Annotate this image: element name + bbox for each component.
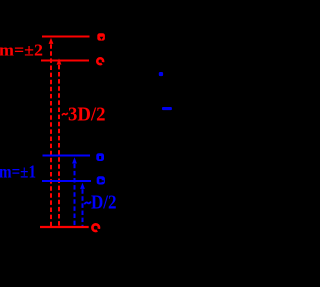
state letter o on upper m=+-1 level bbox=[96, 153, 104, 161]
label ~3D/2 tilde bbox=[62, 113, 68, 116]
red dashed transition arrow to upper m=+-2 level bbox=[49, 38, 54, 226]
level m=+-2 lower (red) bbox=[41, 60, 89, 62]
svg-text:m=±1: m=±1 bbox=[0, 162, 36, 182]
blue dashed transition arrow to upper m=+-1 level bbox=[72, 157, 77, 226]
ground level (red) bbox=[40, 226, 89, 228]
svg-text:D/2: D/2 bbox=[91, 192, 117, 214]
label ~D/2 tilde bbox=[84, 202, 91, 205]
state letter glyph on upper m=+-2 level bbox=[97, 33, 105, 40]
blue dash (cropped text fragment, right edge) bbox=[162, 107, 172, 110]
state letter e on lower m=+-2 level bbox=[97, 58, 105, 66]
state letter e on ground level bbox=[92, 224, 101, 233]
level m=+-2 upper (red) bbox=[42, 36, 90, 38]
red dashed transition arrow to lower m=+-2 level bbox=[57, 58, 62, 226]
blue dot (cropped text fragment, right edge) bbox=[159, 72, 163, 76]
state letter o on lower m=+-1 level bbox=[97, 176, 105, 184]
level m=+-1 upper (blue) bbox=[43, 155, 91, 157]
svg-text:3D/2: 3D/2 bbox=[68, 103, 106, 125]
blue dashed transition arrow to lower m=+-1 level bbox=[80, 183, 85, 226]
level m=+-1 lower (blue) bbox=[42, 180, 91, 182]
svg-text:m=±2: m=±2 bbox=[0, 41, 43, 60]
